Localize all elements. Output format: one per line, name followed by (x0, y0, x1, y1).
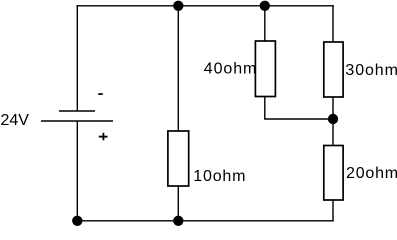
junction dot node B (260, 1, 270, 11)
wire top bus (77, 5, 334, 7)
wire R3 bottom lead (332, 97, 334, 119)
junction dot node C (328, 114, 338, 124)
wire R1 bottom lead (177, 186, 179, 222)
wire battery negative lead (76, 5, 78, 111)
polarity plus (99, 133, 108, 141)
svg-text:24V: 24V (1, 112, 30, 129)
battery V1 24V negative plate (59, 110, 95, 112)
wire R3 top lead (332, 5, 334, 42)
wire battery positive lead (76, 121, 78, 222)
svg-text:10ohm: 10ohm (193, 168, 246, 185)
battery V1 24V positive plate (41, 120, 113, 122)
resistor R1 10ohm (168, 131, 189, 186)
resistor R2 40ohm (255, 41, 275, 97)
svg-text:20ohm: 20ohm (346, 165, 397, 182)
svg-text:40ohm: 40ohm (204, 60, 257, 77)
wire R4 bottom lead (332, 200, 334, 222)
wire bottom bus (77, 220, 334, 222)
junction dot node D (72, 216, 82, 226)
wire R2 bottom lead to node (265, 97, 333, 120)
wire R1 top lead (177, 5, 179, 131)
resistor R3 30ohm (324, 42, 343, 97)
svg-text:30ohm: 30ohm (345, 62, 397, 79)
junction dot node A (173, 1, 183, 11)
wire node to R4 (332, 119, 334, 146)
wire R2 top lead (264, 5, 266, 41)
resistor R4 20ohm (324, 146, 343, 201)
junction dot node E (173, 216, 183, 226)
polarity minus (98, 93, 103, 95)
